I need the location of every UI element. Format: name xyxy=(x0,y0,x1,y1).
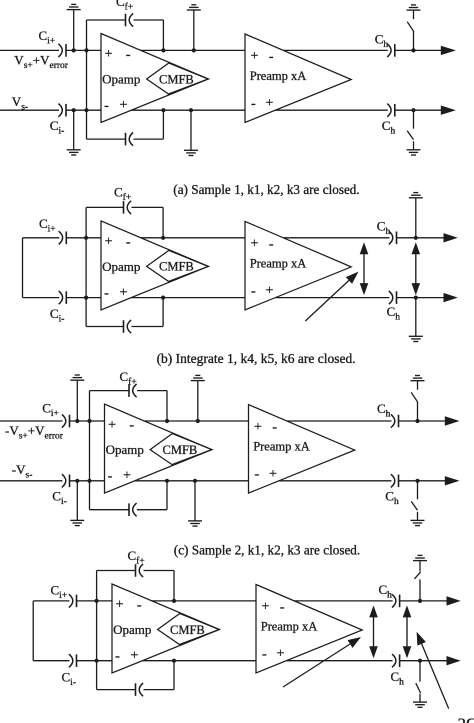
differential output swing arrow (right) xyxy=(415,251,417,286)
capacitor Cf+ xyxy=(125,14,127,27)
svg-text:-: - xyxy=(254,467,259,482)
output arrow top xyxy=(447,596,461,605)
svg-text:Opamp: Opamp xyxy=(106,442,144,457)
capacitor Ci- xyxy=(69,654,73,667)
node in+ junction xyxy=(87,419,91,423)
wire Ci+ to opamp xyxy=(77,600,113,602)
svg-text:CMFB: CMFB xyxy=(159,72,194,86)
ground k2 xyxy=(70,519,84,521)
wire opamp out+ to preamp xyxy=(141,49,245,51)
svg-text:+: + xyxy=(254,420,262,435)
switch k5 open (top right) xyxy=(417,402,419,421)
node hold+ xyxy=(411,48,415,52)
switch k2 closed to ground (bottom) xyxy=(72,108,76,112)
wire Ci- to opamp xyxy=(77,660,113,662)
switch k6 closed to ground (bottom right) xyxy=(415,298,417,337)
capacitor Ci+ xyxy=(58,44,62,57)
wire feedback top xyxy=(87,19,126,21)
wire input+ rail xyxy=(0,49,59,51)
wire feedback bottom xyxy=(86,326,123,328)
op-amp U1 Opamp xyxy=(101,221,208,310)
svg-text:-: - xyxy=(126,235,131,250)
wire feedback top xyxy=(90,390,130,392)
wire feedback bottom xyxy=(90,509,130,511)
differential output swing arrow (left) xyxy=(373,614,375,649)
wire feedback top xyxy=(86,206,123,208)
wire feedback bottom xyxy=(87,138,126,140)
node in- junction xyxy=(95,659,99,663)
wire Ci- to opamp xyxy=(70,480,105,482)
svg-text:(b) Integrate 1, k4, k5, k6 ar: (b) Integrate 1, k4, k5, k6 are closed. xyxy=(157,351,356,366)
capacitor Ci- xyxy=(62,474,66,487)
wire opamp out+ to preamp xyxy=(152,600,256,602)
wire opamp out- to preamp xyxy=(131,109,245,111)
wire feedback right vertical (top) xyxy=(173,571,175,601)
svg-text:+: + xyxy=(108,418,116,433)
svg-text:+: + xyxy=(269,467,277,482)
svg-text:+: + xyxy=(261,600,269,615)
svg-text:-: - xyxy=(126,47,131,62)
wire Ch to arrow (top) xyxy=(397,237,445,239)
annotation arrow 2 xyxy=(422,644,449,709)
svg-text:-: - xyxy=(269,237,274,252)
wire Ci- to opamp xyxy=(66,109,101,111)
switch k1 closed to ground (top) xyxy=(72,48,76,52)
wire preamp out+ xyxy=(287,420,392,422)
wire shorting loop k4 xyxy=(22,238,24,298)
capacitor Ci+ xyxy=(69,594,73,607)
wire opamp out- to preamp xyxy=(135,480,249,482)
wire input- rail xyxy=(0,480,63,482)
ground k3 top xyxy=(187,9,201,11)
op-amp U2 Preamp xA xyxy=(245,34,351,123)
capacitor Cf- xyxy=(123,320,125,333)
ground k3 bottom xyxy=(188,520,202,522)
capacitor Ch bottom xyxy=(389,291,393,304)
wire Ci+ to opamp xyxy=(66,49,101,51)
wire Ci+ to opamp xyxy=(70,420,105,422)
wire opamp out+ to preamp xyxy=(141,237,245,239)
wire Ci+ to opamp xyxy=(66,237,101,239)
svg-text:-: - xyxy=(251,97,256,112)
svg-text:+: + xyxy=(265,284,273,299)
output arrow top xyxy=(444,233,458,242)
ground k1 xyxy=(70,379,84,381)
svg-text:CMFB: CMFB xyxy=(163,443,198,457)
capacitor Ch top xyxy=(387,44,391,57)
wire feedback bottom xyxy=(97,689,136,691)
svg-text:+: + xyxy=(250,49,258,64)
node hold+ xyxy=(418,599,422,603)
svg-text:-: - xyxy=(269,49,274,64)
op-amp U2 Preamp xA xyxy=(249,405,355,494)
svg-text:Opamp: Opamp xyxy=(113,622,151,637)
capacitor Ch top xyxy=(392,594,396,607)
annotation arrow 1 xyxy=(305,280,349,321)
wire Ch to arrow (bottom) xyxy=(397,297,445,299)
node hold- xyxy=(418,659,422,663)
svg-text:-: - xyxy=(108,469,113,484)
wire opamp out- to preamp xyxy=(131,297,245,299)
svg-text:-: - xyxy=(104,98,109,113)
wire preamp out- xyxy=(275,297,389,299)
node hold+ xyxy=(414,236,418,240)
output arrow bottom xyxy=(444,293,458,302)
wire Ci- to opamp xyxy=(66,297,101,299)
svg-text:-: - xyxy=(262,647,267,662)
node in+ junction xyxy=(84,236,88,240)
switch k5 open (top right, d) xyxy=(419,579,421,601)
ground k2 xyxy=(67,149,81,151)
ground k1 xyxy=(67,9,81,11)
switch k6 open (bottom right) xyxy=(413,110,415,129)
annotation arrow 1 xyxy=(283,644,350,687)
svg-text:+: + xyxy=(120,285,128,300)
op-amp U1 Opamp xyxy=(101,34,208,123)
CMFB block inside opamp xyxy=(147,250,209,281)
switch k2 closed to ground (bottom) xyxy=(75,479,79,483)
capacitor Ch top xyxy=(389,231,393,244)
differential output swing arrow (left) xyxy=(363,251,365,286)
CMFB block inside opamp xyxy=(158,614,220,645)
capacitor Ch top xyxy=(391,414,395,427)
wire Ch to arrow (bottom) xyxy=(399,480,446,482)
capacitor Cf+ xyxy=(123,201,125,214)
wire input- rail xyxy=(0,109,59,111)
wire preamp out+ xyxy=(283,237,389,239)
wire feedback left vertical xyxy=(96,571,98,690)
wire preamp out- xyxy=(275,109,387,111)
wire feedback right vertical (bottom) xyxy=(166,481,168,510)
svg-text:CMFB: CMFB xyxy=(170,623,205,637)
svg-text:-: - xyxy=(115,649,120,664)
output arrow bottom xyxy=(441,106,456,115)
capacitor Ci- xyxy=(59,291,63,304)
capacitor Cf+ xyxy=(135,564,137,577)
node in- junction xyxy=(87,479,91,483)
node in+ junction xyxy=(95,599,99,603)
node hold+ xyxy=(415,419,419,423)
svg-text:+: + xyxy=(131,649,139,664)
output arrow bottom xyxy=(447,656,461,665)
svg-text:-: - xyxy=(129,418,134,433)
wire feedback right vertical (top) xyxy=(166,391,168,421)
svg-text:2Ω: 2Ω xyxy=(458,715,474,723)
wire feedback left vertical xyxy=(89,391,91,510)
svg-text:+: + xyxy=(276,647,284,662)
svg-text:-: - xyxy=(251,284,256,299)
wire feedback right vertical (bottom) xyxy=(173,661,175,690)
switch k3 closed to ground (top mid) xyxy=(192,48,196,52)
svg-text:+: + xyxy=(120,98,128,113)
svg-text:CMFB: CMFB xyxy=(159,260,194,274)
svg-text:-: - xyxy=(104,286,109,301)
CMFB block inside opamp xyxy=(147,63,209,94)
wire preamp out+ xyxy=(283,49,388,51)
capacitor Ci+ xyxy=(59,231,63,244)
svg-text:-: - xyxy=(272,420,277,435)
svg-text:Opamp: Opamp xyxy=(102,72,140,87)
ground k3 top xyxy=(191,380,205,382)
wire Ch to arrow (top) xyxy=(399,420,446,422)
switch k5 closed to ground (top right) xyxy=(415,198,417,238)
switch k3 closed to ground (bottom mid) xyxy=(193,479,197,483)
wire opamp out- to preamp xyxy=(142,660,256,662)
output arrow top xyxy=(441,46,456,55)
wire feedback right vertical (bottom) xyxy=(162,298,164,327)
op-amp U1 Opamp xyxy=(112,584,219,673)
wire shorting loop k4 xyxy=(32,601,34,661)
op-amp U1 Opamp xyxy=(105,404,212,493)
output arrow top xyxy=(445,416,460,425)
wire feedback left vertical xyxy=(86,20,88,139)
wire Ch to arrow (top) xyxy=(400,600,448,602)
switch k6 open (bottom right) xyxy=(417,481,419,500)
svg-text:Opamp: Opamp xyxy=(102,259,140,274)
op-amp U2 Preamp xA xyxy=(245,221,351,310)
node in- junction xyxy=(84,296,88,300)
switch k1 closed to ground (top) xyxy=(75,419,79,423)
svg-text:+: + xyxy=(105,47,113,62)
svg-text:(a) Sample 1, k1, k2, k3 are c: (a) Sample 1, k1, k2, k3 are closed. xyxy=(173,182,359,197)
output arrow bottom xyxy=(445,476,460,485)
capacitor Cf+ xyxy=(128,384,130,397)
capacitor Cf- xyxy=(135,683,137,696)
node in- junction xyxy=(84,108,88,112)
capacitor Ch bottom xyxy=(387,104,391,117)
wire Ch to arrow (top) xyxy=(395,49,442,51)
differential output swing arrow (right) xyxy=(406,614,408,649)
wire Ch to arrow (bottom) xyxy=(400,660,448,662)
switch k5 open (top right) xyxy=(413,31,415,50)
switch k6 open (bottom right, d) xyxy=(419,661,421,682)
wire input+ rail xyxy=(0,420,63,422)
switch k3 closed to ground (top mid) xyxy=(196,419,200,423)
ground k3 bottom xyxy=(184,149,198,151)
svg-text:+: + xyxy=(250,237,258,252)
svg-text:Preamp xA: Preamp xA xyxy=(253,440,310,454)
capacitor Ch bottom xyxy=(392,654,396,667)
wire feedback left vertical xyxy=(85,207,87,326)
capacitor Cf- xyxy=(125,133,127,146)
svg-text:-: - xyxy=(137,598,142,613)
svg-text:(c) Sample 2, k1, k2, k3 are c: (c) Sample 2, k1, k2, k3 are closed. xyxy=(174,543,360,558)
capacitor Ch bottom xyxy=(391,474,395,487)
wire feedback right vertical (bottom) xyxy=(162,110,164,139)
svg-text:Preamp xA: Preamp xA xyxy=(250,256,307,270)
wire opamp out+ to preamp xyxy=(144,420,248,422)
capacitor Cf- xyxy=(128,503,130,516)
CMFB block inside opamp xyxy=(150,434,212,465)
svg-text:+: + xyxy=(116,598,124,613)
wire Ch to arrow (bottom) xyxy=(395,109,442,111)
capacitor Ci- xyxy=(58,104,62,117)
wire feedback right vertical (top) xyxy=(162,20,164,50)
svg-text:+: + xyxy=(123,469,131,484)
switch k3 closed to ground (bottom mid) xyxy=(189,108,193,112)
wire feedback right vertical (top) xyxy=(162,207,164,237)
svg-text:+: + xyxy=(105,235,113,250)
wire preamp out- xyxy=(279,480,392,482)
svg-text:Preamp xA: Preamp xA xyxy=(250,69,307,83)
wire preamp out- xyxy=(286,660,392,662)
node hold- xyxy=(414,296,418,300)
node hold- xyxy=(415,479,419,483)
op-amp U2 Preamp xA xyxy=(256,585,362,674)
wire feedback top xyxy=(97,570,136,572)
capacitor Ci+ xyxy=(62,414,66,427)
svg-text:+: + xyxy=(265,96,273,111)
wire preamp out+ xyxy=(294,600,392,602)
node in+ junction xyxy=(84,48,88,52)
svg-text:-: - xyxy=(280,600,285,615)
svg-text:Preamp xA: Preamp xA xyxy=(261,620,318,634)
node hold- xyxy=(411,108,415,112)
